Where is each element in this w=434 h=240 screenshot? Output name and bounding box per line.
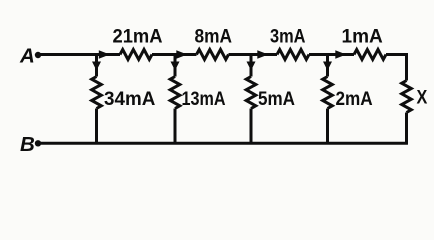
node A terminal dot: [35, 52, 41, 58]
svg-text:A: A: [19, 45, 35, 68]
wire branch 3 lower: [250, 109, 253, 144]
svg-text:3mA: 3mA: [270, 26, 306, 48]
wire branch 1 lower: [95, 109, 98, 144]
svg-text:8mA: 8mA: [195, 26, 233, 48]
wire X to bottom rail: [405, 113, 408, 145]
node B terminal dot: [35, 140, 41, 146]
wire bottom rail B to right corner: [40, 142, 408, 145]
wire branch 3 upper: [250, 55, 253, 77]
wire branch 2 upper: [174, 55, 177, 77]
svg-text:1mA: 1mA: [342, 26, 383, 48]
resistor R1 21mA (top, series): [120, 50, 152, 60]
current arrow branch 3 down: [247, 62, 256, 71]
svg-text:34mA: 34mA: [104, 88, 155, 110]
svg-text:X: X: [417, 87, 428, 109]
wire branch 1 upper: [95, 55, 98, 77]
current arrow into R2: [176, 50, 187, 58]
svg-text:2mA: 2mA: [336, 88, 373, 110]
resistor R4 1mA (top, series): [354, 50, 386, 60]
resistor R3 3mA (top, series): [277, 50, 309, 60]
wire R2 to node 3: [229, 53, 278, 56]
current arrow branch 4 down: [323, 62, 332, 71]
current arrow branch 1 down: [92, 62, 101, 71]
svg-text:21mA: 21mA: [113, 26, 163, 48]
svg-text:13mA: 13mA: [182, 88, 226, 110]
svg-text:B: B: [20, 133, 35, 156]
resistor R2 8mA (top, series): [197, 50, 229, 60]
wire branch 4 upper: [326, 55, 329, 77]
wire R1 to node 2: [152, 53, 197, 56]
svg-text:5mA: 5mA: [258, 88, 295, 110]
wire branch 4 lower: [326, 109, 329, 144]
resistor X (right branch): [402, 81, 412, 113]
wire R4 to top-right corner: [386, 55, 407, 81]
resistor 2mA (shunt branch 4): [323, 77, 333, 109]
resistor 5mA (shunt branch 3): [246, 77, 256, 109]
current arrow branch 2 down: [171, 62, 180, 71]
resistor 13mA (shunt branch 2): [170, 77, 180, 109]
wire R3 to node 4: [309, 53, 354, 56]
current arrow into R1: [99, 50, 110, 58]
resistor 34mA (shunt branch 1): [92, 77, 102, 109]
current arrow into R4: [335, 50, 346, 58]
wire A to node 1: [40, 53, 120, 56]
current arrow into R3: [257, 50, 268, 58]
wire branch 2 lower: [174, 109, 177, 144]
